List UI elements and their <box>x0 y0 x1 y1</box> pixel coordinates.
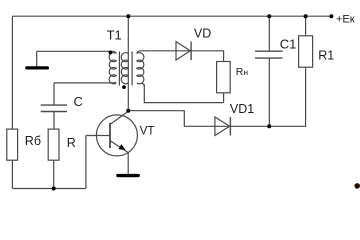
svg-text:R1: R1 <box>318 49 334 63</box>
wire left border <box>11 16 13 129</box>
junction node VD1/C1 <box>267 124 271 128</box>
wire winding1 top terminal <box>37 50 113 52</box>
ground bar (emitter) <box>116 174 140 177</box>
wire C top lead <box>53 83 55 105</box>
diode VD <box>176 42 191 60</box>
wire secondary bottom return <box>144 84 223 102</box>
transformer T1 core line left <box>118 52 120 86</box>
wire Rn bottom lead <box>223 93 225 103</box>
junction node rail/C1 <box>267 14 271 18</box>
transformer T1 core line right <box>131 52 133 86</box>
winding3 top curl <box>137 51 141 54</box>
wire base bottom rail <box>12 188 86 190</box>
wire base node vertical <box>85 136 87 189</box>
svg-text:R: R <box>67 136 76 150</box>
capacitor C1 <box>255 51 283 58</box>
transistor VT emitter arrow <box>118 144 125 150</box>
wire C1 bottom lead <box>268 58 270 126</box>
transformer T1 winding 3 (secondary winding) <box>137 53 144 84</box>
wire R1 top lead <box>305 16 307 36</box>
wire winding3 bottom curl <box>141 83 144 86</box>
corner blob bottom right <box>354 183 360 189</box>
junction node rail/R1 <box>304 14 308 18</box>
wire top rail +Ek <box>12 15 331 17</box>
wire C bottom lead <box>53 112 55 130</box>
wire collector vertical <box>127 16 129 111</box>
svg-text:C1: C1 <box>280 37 297 52</box>
resistor Rb <box>7 129 18 160</box>
winding1 bottom curl <box>112 81 116 84</box>
svg-text:VD: VD <box>194 27 211 41</box>
junction node R bottom <box>52 187 56 191</box>
wire C1 top lead <box>268 16 270 51</box>
wire winding3 top to VD anode <box>141 50 192 52</box>
wire R bottom lead <box>53 160 55 188</box>
resistor R1 <box>299 36 313 67</box>
svg-text:Rн: Rн <box>236 66 249 78</box>
wire ground drop <box>36 51 38 66</box>
phase dot winding1 <box>109 51 113 55</box>
wire VD cathode to Rn top <box>191 51 224 62</box>
svg-text:+Ек: +Ек <box>336 13 355 25</box>
wire collector to VD1 jog <box>128 111 230 127</box>
wire VD1 cathode to R1 bottom <box>230 67 305 126</box>
wire base lead <box>86 135 110 137</box>
svg-text:Rб: Rб <box>25 134 41 148</box>
svg-text:VT: VT <box>140 125 155 137</box>
winding1 top curl <box>112 51 116 53</box>
transistor VT <box>96 111 137 156</box>
svg-text:T1: T1 <box>107 27 122 42</box>
capacitor C <box>41 105 67 111</box>
resistor Rn <box>217 62 231 93</box>
phase dot winding2 <box>122 85 126 89</box>
diode VD1 <box>215 117 231 136</box>
ground bar (base winding) <box>25 66 49 69</box>
wire winding1 bottom terminal <box>54 82 112 84</box>
junction node collector <box>126 109 130 113</box>
svg-text:VD1: VD1 <box>230 102 254 116</box>
junction node rail/collector <box>126 14 130 18</box>
resistor R <box>48 129 59 160</box>
wire Rb bottom lead <box>11 160 13 188</box>
svg-text:C: C <box>74 94 83 109</box>
terminal dot +Ek <box>329 14 333 18</box>
transformer T1 winding 2 (collector winding) <box>121 53 128 84</box>
transformer T1 winding 1 (base winding) <box>109 53 116 84</box>
wire emitter vertical <box>127 153 129 175</box>
